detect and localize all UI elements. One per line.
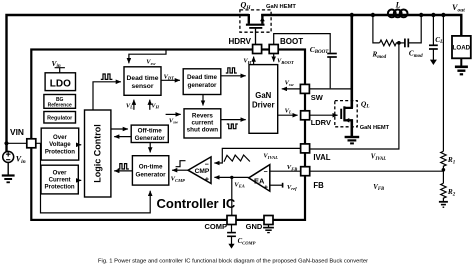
wire V_sw from SW pin into GaN driver (282, 88, 301, 90)
block GaN driver U2 (249, 65, 278, 134)
wire FB pin to EA minus input (270, 170, 301, 172)
svg-text:VH: VH (243, 58, 251, 65)
waveform glyph inverted pulses (revers out) (227, 124, 238, 129)
wire on-time generator to logic control (114, 170, 132, 172)
wire dead time generator to GaN driver (221, 75, 246, 77)
pin LDRV (301, 111, 310, 120)
svg-text:−: − (264, 169, 268, 176)
svg-text:GND: GND (246, 222, 263, 231)
wire IVAL sense from Rmod-Cmod node to IVAL pin (310, 43, 399, 149)
pin BOOT (269, 45, 278, 54)
op-amp EA error amplifier (249, 165, 270, 192)
svg-text:Protection: Protection (45, 183, 75, 190)
block over current protection (41, 165, 78, 194)
pin SW (300, 84, 309, 93)
wire EA output to CMP plus input (214, 176, 248, 178)
block BG Reference (44, 95, 76, 109)
pin GND (264, 216, 273, 225)
block Regulator (44, 112, 76, 124)
svg-text:Rmod: Rmod (372, 51, 387, 60)
wire revers current shut down to GaN driver (221, 119, 246, 121)
terminal V_ref bar (282, 183, 284, 188)
wire logic control to off-time generator (111, 128, 128, 130)
wire BOOT pin to CBOOT (274, 34, 331, 53)
svg-text:Controller IC: Controller IC (157, 196, 236, 211)
svg-text:Logic Control: Logic Control (93, 124, 103, 183)
wire V_in stub into LDO (55, 68, 65, 73)
svg-text:Vin: Vin (16, 155, 26, 166)
svg-text:generator: generator (187, 82, 217, 89)
svg-text:+: + (264, 184, 268, 191)
controller IC boundary box (31, 50, 305, 220)
wire VIN top rail right segment (261, 15, 461, 36)
wire FB pin to divider (310, 170, 443, 172)
svg-text:FB: FB (313, 181, 324, 190)
transistor Q2 low-side GaN HEMT (335, 101, 357, 137)
svg-text:VIN: VIN (10, 127, 24, 137)
capacitor CL (429, 15, 438, 65)
svg-text:VIVAL: VIVAL (263, 153, 278, 160)
svg-text:Vsw: Vsw (285, 80, 295, 87)
wire CMP output to on-time generator (172, 169, 188, 171)
waveform glyph square pulses (generator out) (226, 68, 237, 73)
block revers current shut down (184, 109, 221, 138)
svg-text:Driver: Driver (252, 101, 275, 110)
block off-time generator (131, 125, 168, 142)
svg-text:Voltage: Voltage (49, 141, 71, 148)
ground Q_L (345, 137, 360, 143)
svg-text:Dead time: Dead time (127, 75, 159, 82)
svg-text:CMP: CMP (195, 168, 210, 175)
wire Vin source to VIN pin (7, 142, 27, 144)
resistor R2 (441, 183, 446, 201)
wire V_L GaN driver to LDRV pin (278, 114, 298, 116)
wire dead time generator to revers current shut down (202, 95, 204, 106)
capacitor CBOOT (327, 54, 337, 89)
ground GND pin (263, 225, 274, 233)
svg-text:BOOT: BOOT (280, 37, 303, 46)
svg-text:GaN: GaN (255, 91, 271, 100)
wire logic control to dead time sensor (93, 82, 121, 110)
svg-text:VFB: VFB (287, 164, 298, 171)
source Vin (3, 151, 14, 162)
svg-text:Vref: Vref (287, 184, 297, 191)
wire V_H stub into sensor bottom (149, 100, 151, 110)
wire Vin internal route to on-time generator (36, 143, 150, 213)
transistor Q1 high-side GaN HEMT (240, 10, 271, 45)
wire Rmod branch (373, 15, 380, 43)
svg-text:IVAL: IVAL (313, 153, 330, 162)
svg-text:LDRV: LDRV (311, 118, 331, 127)
svg-text:VEA: VEA (234, 181, 245, 188)
wire off-time generator to logic control (114, 136, 131, 138)
svg-text:VCMP: VCMP (171, 176, 186, 183)
wire V_EA to COMP pin (231, 177, 233, 215)
svg-text:Vsw: Vsw (169, 118, 179, 125)
wire over current protection to logic control (78, 179, 81, 181)
svg-text:QL: QL (361, 99, 370, 109)
ground Vin source (2, 162, 15, 182)
wire V_IVAL from IVAL pin to CMP minus input (214, 148, 300, 163)
wire LDRV pin to Q_L gate (310, 114, 338, 116)
node Rmod-Cmod junction (397, 41, 401, 45)
block over voltage protection (41, 128, 78, 160)
svg-text:CL: CL (435, 36, 443, 45)
wire divider from rail (442, 15, 444, 151)
svg-text:VL: VL (285, 107, 292, 114)
svg-text:GaN HEMT: GaN HEMT (360, 125, 390, 131)
svg-text:Over: Over (53, 169, 68, 176)
load box (452, 36, 471, 58)
svg-text:VDT: VDT (164, 73, 175, 80)
wire V_H GaN driver to HDRV pin (253, 57, 255, 65)
ground LOAD (455, 58, 468, 74)
svg-text:Off-time: Off-time (138, 127, 163, 134)
svg-text:VBOOT: VBOOT (277, 58, 294, 65)
svg-text:GaN HEMT: GaN HEMT (266, 4, 296, 10)
svg-text:CCOMP: CCOMP (238, 238, 256, 245)
svg-text:HDRV: HDRV (228, 37, 251, 46)
op-amp CMP comparator (188, 157, 211, 184)
block LDO (45, 73, 75, 91)
wire V_DT sensor to dead time generator (161, 79, 180, 81)
wire off-time generator to on-time generator (149, 143, 151, 153)
svg-text:sensor: sensor (132, 83, 154, 90)
node Rmod rail junction (371, 13, 375, 17)
wire Cmod to rail (408, 15, 421, 43)
node CL rail junction (431, 13, 435, 17)
svg-text:Generator: Generator (136, 171, 167, 178)
svg-text:Over: Over (53, 134, 68, 141)
svg-text:Generator: Generator (135, 135, 166, 142)
svg-text:Vsw: Vsw (146, 59, 156, 66)
node Cmod rail junction (419, 13, 423, 17)
svg-text:Fig. 1 Power stage and control: Fig. 1 Power stage and controller IC fun… (98, 259, 368, 265)
svg-text:CBOOT: CBOOT (310, 45, 330, 55)
ground R2 (439, 202, 448, 207)
capacitor C_COMP (227, 225, 236, 249)
svg-text:LDO: LDO (50, 78, 71, 89)
svg-text:Regulator: Regulator (47, 116, 73, 122)
block logic control (85, 110, 111, 197)
waveform glyph square pulses (logic to sensor) (101, 74, 113, 79)
svg-text:VH: VH (151, 102, 159, 109)
wire V_L stub into sensor bottom (133, 100, 135, 110)
block on-time generator (132, 156, 168, 185)
svg-text:VL: VL (126, 102, 133, 109)
wire V_ref stub into EA plus input (270, 184, 283, 186)
node Vin junction (4, 141, 8, 145)
svg-text:Vout: Vout (452, 3, 465, 14)
node FB divider junction (442, 168, 446, 172)
pin FB (301, 167, 310, 176)
svg-text:L: L (395, 1, 401, 10)
block dead time sensor (124, 67, 161, 96)
svg-text:+: + (205, 176, 209, 183)
pin HDRV (253, 45, 262, 54)
svg-text:LOAD: LOAD (453, 45, 471, 52)
waveform glyph square pulses (on-time out) (118, 164, 129, 169)
svg-text:R2: R2 (447, 188, 456, 197)
svg-text:R1: R1 (447, 156, 455, 165)
resistor R1 (441, 151, 446, 170)
svg-text:VIVAL: VIVAL (371, 154, 386, 162)
wire V_sw stub into dead time sensor top (129, 50, 166, 64)
pin COMP (227, 216, 236, 225)
wire junction to Cmod (399, 42, 405, 44)
svg-text:Dead time: Dead time (187, 74, 218, 81)
svg-text:On-time: On-time (139, 163, 163, 170)
svg-text:QH: QH (241, 1, 252, 12)
wire SW node vertical (350, 15, 353, 108)
svg-text:Reference: Reference (48, 103, 72, 109)
inductor L (388, 10, 408, 18)
svg-text:Current: Current (49, 176, 71, 183)
block dead time generator (183, 69, 221, 95)
wire R1 to R2 (442, 170, 444, 184)
svg-text:shut down: shut down (187, 126, 219, 133)
wire over voltage protection to logic control (79, 144, 82, 146)
node divider rail junction (441, 13, 445, 17)
pin VIN (27, 139, 36, 148)
wire V_BOOT from BOOT pin into GaN driver (273, 53, 275, 62)
wire SW pin to SW node (309, 88, 351, 90)
svg-text:VFB: VFB (373, 184, 385, 192)
waveform glyph step (CMP out) (176, 161, 186, 167)
svg-text:−: − (205, 161, 209, 168)
svg-text:COMP: COMP (205, 222, 228, 231)
node V_EA junction (230, 176, 233, 179)
pin IVAL (301, 144, 310, 153)
svg-text:Protection: Protection (45, 148, 75, 155)
svg-text:Cmod: Cmod (409, 50, 423, 59)
node SW rail junction (350, 13, 354, 17)
svg-text:SW: SW (311, 93, 324, 102)
wire V_sw stub into revers current shut down (166, 113, 181, 115)
resistor Rmod (380, 40, 399, 46)
capacitor Cmod (405, 39, 408, 48)
wire VIN top rail left segment (7, 15, 249, 152)
waveform glyph sawtooth ramp (224, 155, 250, 162)
